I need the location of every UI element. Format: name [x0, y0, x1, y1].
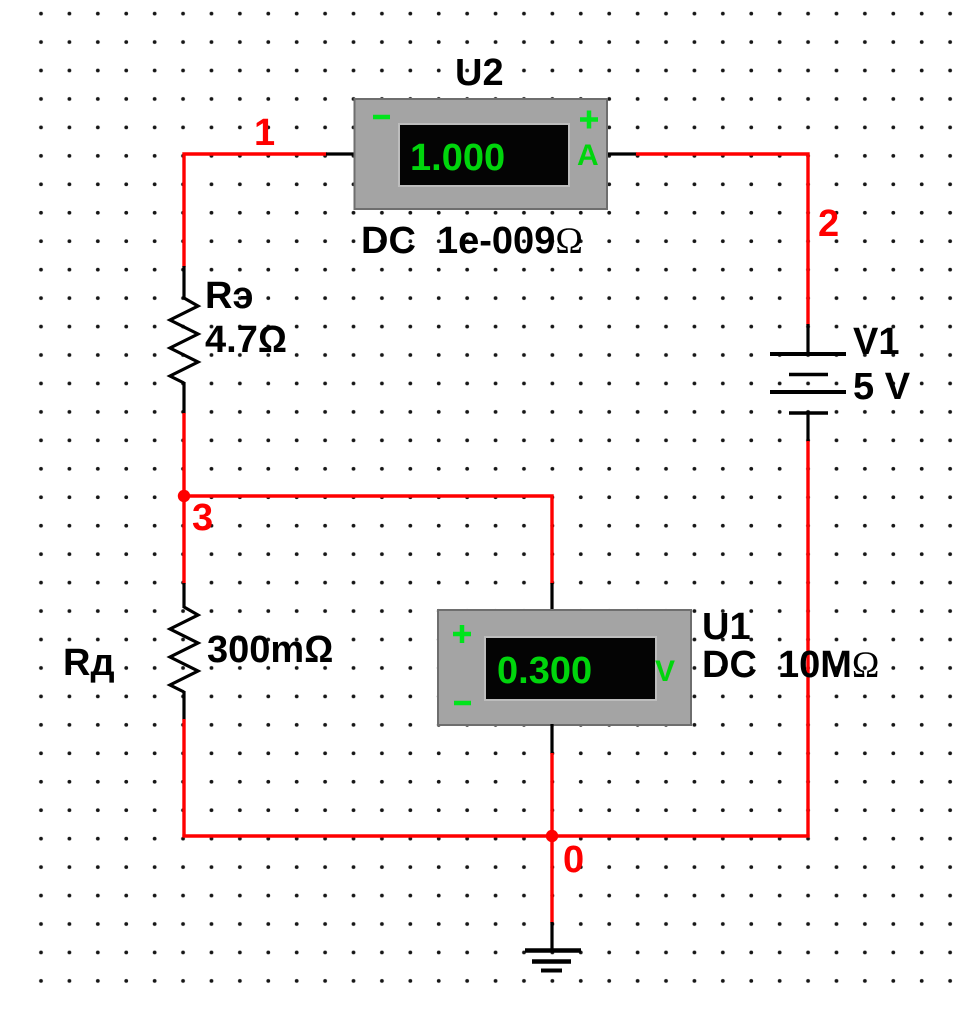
- voltmeter U1 body: [438, 610, 691, 725]
- battery V1: [770, 354, 846, 413]
- voltmeter U1 display: [486, 638, 655, 699]
- ground bar 3: [541, 969, 562, 973]
- svg-text:0.300: 0.300: [497, 650, 592, 692]
- resistor Rэ: [170, 266, 198, 414]
- svg-text:V: V: [655, 655, 675, 688]
- resistor Rд bottom lead: [182, 691, 185, 720]
- ground bar 2: [532, 959, 571, 964]
- resistor Rд zigzag body: [170, 607, 198, 692]
- battery V1 plate 3 (long): [770, 390, 846, 394]
- battery V1 plate 1 (long, +): [770, 352, 846, 356]
- wire Rд bottom to node 0: [182, 719, 185, 837]
- battery V1 bottom lead: [806, 411, 809, 442]
- svg-text:DC 1e-009Ω: DC 1e-009Ω: [361, 220, 583, 262]
- wire node 2: ammeter U2 right terminal to battery V1 plus: [636, 154, 808, 325]
- ammeter U2 plus polarity mark: [580, 111, 598, 129]
- svg-text:Rэ: Rэ: [205, 275, 253, 317]
- svg-text:A: A: [577, 139, 599, 172]
- voltmeter U1 plus polarity mark: [453, 625, 471, 643]
- resistor Rэ top lead: [182, 266, 185, 299]
- svg-text:V1: V1: [853, 321, 899, 363]
- wire node 0 to ground: [550, 836, 553, 923]
- ground bar 1: [525, 948, 581, 953]
- ammeter U2 left pin: [326, 152, 356, 155]
- voltmeter U1: [438, 610, 691, 725]
- svg-text:0: 0: [563, 839, 584, 881]
- svg-text:2: 2: [818, 203, 839, 245]
- battery V1 plate 4 (short, -): [789, 411, 828, 415]
- svg-text:3: 3: [192, 497, 213, 539]
- junction node 0: [546, 830, 558, 842]
- svg-text:U2: U2: [455, 52, 504, 94]
- ammeter U2 right pin: [606, 152, 637, 155]
- wire node 3 down to Rд: [182, 496, 185, 584]
- wire voltmeter U1 bottom to node 0: [550, 753, 553, 837]
- svg-text:1: 1: [254, 112, 275, 154]
- ammeter U2 display: [400, 125, 568, 185]
- resistor Rэ zigzag body: [170, 298, 198, 383]
- svg-text:DC 10MΩ: DC 10MΩ: [702, 644, 879, 686]
- junction node 3: [178, 490, 190, 502]
- voltmeter U1 minus polarity mark: [454, 701, 471, 706]
- battery V1 top lead: [806, 324, 809, 355]
- voltmeter U1 bottom pin: [550, 724, 553, 754]
- resistor Rд: [170, 583, 198, 720]
- ground lead: [550, 922, 553, 950]
- voltmeter U1 display bezel: [484, 636, 657, 701]
- wire node 3 horizontal run to voltmeter U1: [184, 496, 552, 584]
- svg-text:Rд: Rд: [63, 642, 115, 684]
- svg-text:U1: U1: [702, 606, 751, 648]
- ammeter U2 minus polarity mark: [373, 115, 390, 120]
- voltmeter U1 top pin: [550, 583, 553, 612]
- battery V1 plate 2 (short): [789, 373, 828, 377]
- svg-text:4.7Ω: 4.7Ω: [205, 319, 287, 361]
- wire battery V1 minus to node 0: [806, 441, 809, 837]
- wire Rэ bottom to junction node 3: [182, 413, 185, 497]
- ground: [525, 951, 581, 971]
- ammeter U2 body: [355, 99, 608, 209]
- ammeter U2: [355, 99, 608, 209]
- svg-text:300mΩ: 300mΩ: [207, 629, 333, 671]
- wire node 0 bottom run: [182, 834, 809, 837]
- ammeter U2 display bezel: [398, 123, 570, 187]
- svg-text:5 V: 5 V: [853, 366, 911, 408]
- resistor Rэ bottom lead: [182, 382, 185, 414]
- svg-text:1.000: 1.000: [410, 137, 505, 179]
- wire node 1: Rэ top to ammeter U2 left terminal: [184, 154, 327, 267]
- resistor Rд top lead: [182, 583, 185, 608]
